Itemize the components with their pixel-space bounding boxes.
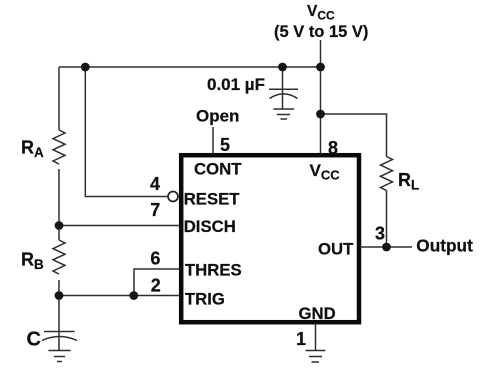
svg-text:OUT: OUT: [318, 240, 354, 259]
svg-text:Open: Open: [196, 106, 239, 125]
svg-text:TRIG: TRIG: [185, 289, 225, 308]
svg-text:8: 8: [328, 138, 338, 158]
svg-text:Output: Output: [416, 236, 473, 256]
svg-text:4: 4: [150, 174, 160, 194]
svg-text:3: 3: [375, 224, 385, 244]
svg-text:RESET: RESET: [184, 190, 241, 209]
svg-text:7: 7: [150, 200, 160, 220]
svg-text:THRES: THRES: [185, 261, 242, 280]
svg-text:5: 5: [220, 135, 230, 155]
svg-text:GND: GND: [299, 304, 336, 323]
svg-text:C: C: [27, 329, 41, 351]
svg-text:CONT: CONT: [194, 160, 242, 179]
svg-text:(5 V to 15 V): (5 V to 15 V): [274, 23, 368, 41]
svg-text:6: 6: [150, 249, 160, 269]
svg-text:0.01 µF: 0.01 µF: [207, 75, 265, 94]
svg-text:DISCH: DISCH: [184, 217, 236, 236]
svg-text:2: 2: [151, 276, 161, 296]
svg-text:1: 1: [296, 329, 306, 349]
